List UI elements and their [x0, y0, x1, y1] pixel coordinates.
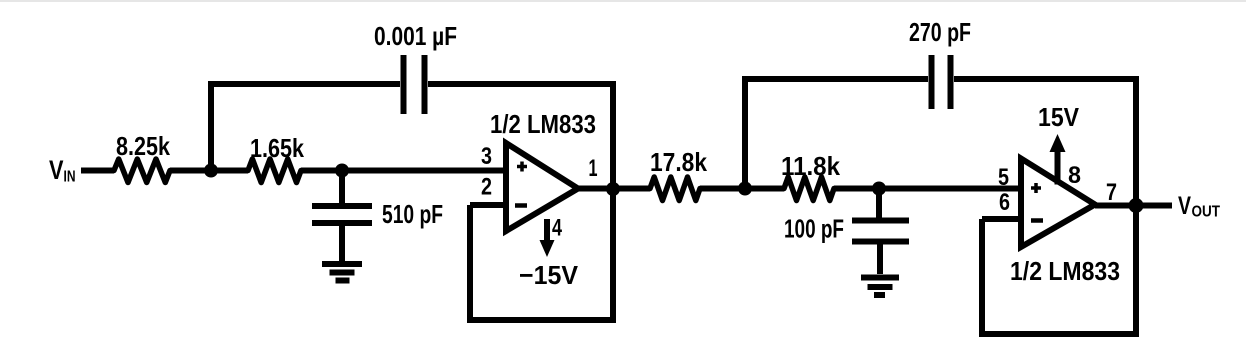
- wire node D down to C3: [876, 189, 882, 218]
- svg-text:V: V: [1178, 192, 1191, 220]
- ground G1: [322, 264, 362, 281]
- wire U1 pin4 stem: [544, 219, 550, 242]
- svg-text:OUT: OUT: [1192, 204, 1221, 221]
- wire node B down to C1: [339, 171, 345, 204]
- resistor R2 1.65k: [248, 133, 304, 183]
- wire feedback1 top right: [428, 81, 616, 87]
- wire feedback2 down right vertical: [1133, 79, 1139, 334]
- node D junction: [872, 182, 886, 196]
- resistor R4 11.8k: [781, 151, 840, 201]
- wire feedback box U1: [470, 205, 616, 320]
- resistor R1 8.25k: [114, 131, 170, 183]
- svg-text:8.25k: 8.25k: [116, 131, 170, 161]
- wire U2 pin8 stem: [1055, 152, 1061, 185]
- svg-text:0.001 µF: 0.001 µF: [374, 21, 457, 51]
- wire feedback1 top left: [208, 81, 400, 87]
- capacitor C3 100 pF: [784, 214, 909, 275]
- node VOUT: [1178, 192, 1220, 221]
- svg-text:3: 3: [481, 143, 492, 170]
- U1 plus sign: [517, 162, 527, 172]
- ground G2: [861, 278, 899, 296]
- wire U1 output: [578, 186, 613, 192]
- U1 minus sign: [515, 203, 527, 208]
- wire feedback2 up from node C: [742, 79, 748, 189]
- node U2 out junction: [1129, 198, 1144, 213]
- svg-text:15V: 15V: [1038, 102, 1080, 132]
- svg-text:1/2 LM833: 1/2 LM833: [490, 109, 596, 139]
- svg-text:4: 4: [552, 215, 562, 242]
- svg-text:2: 2: [481, 174, 492, 201]
- svg-text:270 pF: 270 pF: [909, 17, 971, 47]
- wire node C to R4: [745, 186, 784, 192]
- svg-text:1/2 LM833: 1/2 LM833: [1010, 256, 1120, 286]
- op-amp U1 1/2 LM833: [490, 109, 596, 231]
- U2 plus sign: [1031, 183, 1041, 193]
- wire U2 pin6 stub: [982, 216, 1021, 222]
- svg-text:−15V: −15V: [519, 260, 579, 290]
- capacitor C2 0.001 uF: [374, 21, 457, 114]
- svg-text:100 pF: 100 pF: [784, 214, 844, 244]
- wire R4 to node D: [834, 186, 879, 192]
- wire feedback2 top left: [742, 76, 928, 82]
- svg-text:8: 8: [1068, 162, 1081, 189]
- node A junction: [204, 164, 218, 178]
- wire R3 to node C: [700, 186, 745, 192]
- wire feedback2 top right: [954, 76, 1139, 82]
- wire node D to U2 pin5: [879, 186, 1021, 192]
- op-amp U2 1/2 LM833: [1010, 159, 1120, 287]
- svg-text:IN: IN: [64, 169, 76, 186]
- svg-text:V: V: [49, 155, 64, 185]
- wire U1 pin2 stub: [470, 202, 506, 208]
- svg-text:7: 7: [1106, 179, 1117, 206]
- capacitor C1 510 pF: [312, 199, 443, 261]
- wire R1 to node A: [170, 168, 211, 174]
- node VIN: [49, 155, 76, 186]
- svg-text:17.8k: 17.8k: [650, 147, 707, 177]
- U2 minus sign: [1031, 218, 1043, 223]
- arrow pin8 up to 15V: [1050, 134, 1066, 152]
- svg-text:11.8k: 11.8k: [781, 151, 840, 181]
- svg-text:510 pF: 510 pF: [382, 199, 443, 229]
- node C junction: [738, 182, 752, 196]
- wire U2 output: [1095, 203, 1172, 209]
- svg-text:5: 5: [998, 164, 1009, 191]
- svg-text:1.65k: 1.65k: [250, 133, 304, 163]
- wire feedback1 down right vertical: [610, 84, 616, 321]
- svg-text:6: 6: [999, 189, 1010, 216]
- node U1 out junction: [606, 182, 620, 196]
- wire node B to U1 pin3: [342, 168, 506, 174]
- wire feedback1 up from node A: [208, 84, 214, 171]
- wire Vin to R1: [81, 168, 114, 174]
- wire node A to R2: [211, 168, 248, 174]
- node B junction: [335, 164, 349, 178]
- svg-text:1: 1: [589, 155, 598, 182]
- resistor R3 17.8k: [650, 147, 707, 201]
- arrow pin4 down: [540, 240, 555, 257]
- wire R2 to node B: [301, 168, 342, 174]
- wire U1 out to R3: [613, 186, 650, 192]
- capacitor C4 270 pF: [909, 17, 971, 109]
- wire feedback box U2: [982, 219, 1139, 334]
- scan edge top: [0, 0, 1246, 2]
